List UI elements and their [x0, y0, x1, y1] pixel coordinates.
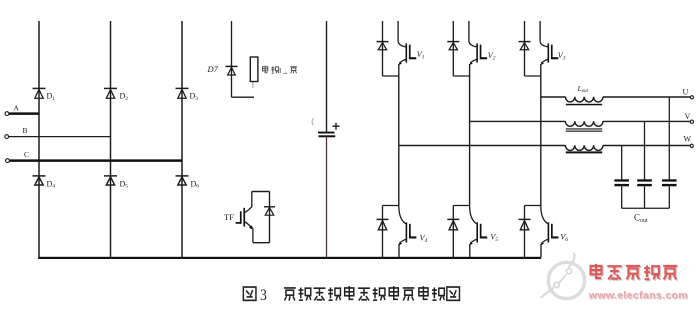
transistor TF gate lead	[236, 222, 241, 224]
diode D4	[33, 176, 46, 185]
wire dc-link bottom vertical	[326, 137, 328, 258]
svg-text:www.elecfans.com: www.elecfans.com	[588, 290, 688, 302]
diode D2	[104, 88, 117, 98]
terminal W	[690, 144, 693, 147]
wire phase U output (from leg3)	[541, 96, 691, 98]
wire cap drop from W line	[621, 146, 623, 180]
IGBT module V5 with antiparallel diode	[447, 206, 487, 258]
svg-text:A: A	[14, 104, 20, 113]
inductor L2 core bars	[566, 128, 602, 131]
wire phase A	[9, 112, 39, 115]
wire cap2 lower lead	[644, 186, 646, 208]
svg-text:W: W	[684, 135, 692, 144]
wire D7 branch bottom horizontal	[232, 96, 255, 98]
wire rectifier leg 2 vertical	[110, 21, 112, 258]
svg-text:D6: D6	[191, 180, 200, 190]
wire negative bus	[38, 257, 541, 259]
svg-text:V6: V6	[560, 233, 568, 243]
svg-text:V3: V3	[558, 51, 566, 61]
svg-text:D5: D5	[120, 180, 129, 190]
logo trace segment	[559, 275, 566, 283]
svg-text:D2: D2	[120, 92, 129, 102]
resistor R1	[250, 57, 258, 82]
svg-text:B: B	[23, 126, 28, 135]
svg-text:D1: D1	[47, 92, 56, 102]
diode D1	[33, 88, 46, 98]
inductor L3 core bar	[566, 151, 602, 153]
label resistor value (blurred CJK)	[262, 66, 297, 74]
logo trace circle B	[554, 282, 559, 287]
logo trace diagonal	[541, 288, 554, 298]
svg-text:D3: D3	[190, 92, 199, 102]
watermark text 电子发烧友 (embossed shadow)	[592, 265, 679, 281]
svg-text:D7: D7	[207, 64, 219, 74]
svg-text:D4: D4	[47, 180, 56, 190]
diode D3	[176, 88, 189, 98]
svg-text:V: V	[685, 112, 691, 121]
wire phase B	[9, 136, 111, 138]
svg-text:V2: V2	[488, 51, 496, 61]
wire phase C	[10, 159, 183, 162]
faint residue under resistor	[252, 82, 254, 88]
wire phase W output (from leg1)	[399, 145, 691, 147]
stray mark near capacitor	[312, 118, 314, 125]
IGBT module V4 with antiparallel diode	[377, 206, 417, 258]
wire phase V output (from leg2)	[470, 120, 691, 122]
svg-text:Cout: Cout	[634, 213, 648, 224]
capacitor C1 plate top	[318, 132, 335, 134]
IGBT module V6 with antiparallel diode	[519, 206, 559, 258]
logo stem	[568, 253, 575, 268]
terminal B circle	[5, 135, 9, 139]
capacitor Cout-1	[614, 179, 629, 186]
wire chopper bottom horizontal	[253, 242, 270, 244]
capacitor Cout-2	[637, 179, 652, 186]
svg-text:Lout: Lout	[577, 84, 589, 94]
wire cap drop from U line	[668, 97, 670, 179]
wire leg1 midpoint vertical	[398, 76, 400, 206]
transistor TF body bar	[243, 208, 245, 227]
capacitor Cout-3	[662, 179, 677, 186]
transistor TF gate bar	[240, 211, 242, 224]
wire cap1 lower lead	[621, 186, 623, 208]
wire cap drop from V line	[644, 121, 646, 179]
IGBT module V3 with antiparallel diode	[519, 21, 559, 76]
svg-text:TF: TF	[224, 212, 234, 222]
terminal A circle	[5, 112, 9, 116]
wire leg3 midpoint vertical	[540, 76, 542, 206]
IGBT module V1 with antiparallel diode	[377, 21, 417, 76]
diode chopper freewheel	[264, 207, 275, 215]
wire cap3 lower lead	[668, 186, 670, 208]
diode D6	[176, 176, 189, 185]
wire leg2 midpoint vertical	[469, 76, 471, 206]
diode D7	[226, 66, 238, 75]
transistor TF collector lead	[245, 192, 252, 213]
label plus sign	[333, 123, 340, 130]
terminal C circle	[6, 159, 10, 163]
logo ring	[548, 262, 584, 298]
svg-text:3: 3	[260, 287, 267, 304]
terminal V	[690, 120, 693, 123]
logo trace circle A	[566, 269, 571, 274]
wire dc-link top vertical	[326, 21, 328, 132]
transistor TF emitter lead with arrow	[245, 222, 252, 228]
svg-text:V4: V4	[420, 234, 428, 244]
wire chopper right vertical	[269, 192, 271, 243]
watermark text 电子发烧友 (red)	[591, 264, 678, 280]
svg-text:C: C	[24, 150, 29, 159]
svg-text:U: U	[683, 88, 689, 97]
svg-text:V1: V1	[417, 50, 425, 60]
terminal U	[690, 96, 693, 99]
inductor L2 (phase V)	[565, 121, 603, 126]
capacitor C1 plate bottom	[319, 135, 336, 137]
wire rectifier leg 1 vertical	[38, 21, 40, 258]
wire chopper top bracket	[252, 191, 270, 193]
inductor L1 (phase U)	[565, 97, 603, 102]
wire D7 branch vertical	[231, 21, 233, 97]
diode D5	[104, 176, 117, 185]
wire TF emitter vertical	[252, 228, 254, 242]
inductor L3 (phase W)	[565, 145, 603, 150]
inductor L1 core bar	[566, 104, 602, 106]
wire capacitor common rail	[622, 207, 670, 209]
svg-text:V5: V5	[490, 233, 498, 243]
wire rectifier leg 3 vertical	[181, 21, 183, 258]
IGBT module V2 with antiparallel diode	[447, 21, 487, 76]
